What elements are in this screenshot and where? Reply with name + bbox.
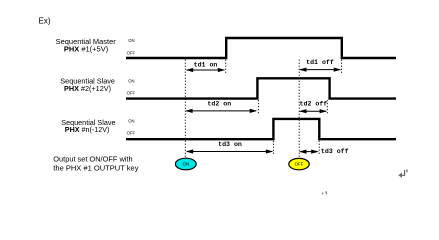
- dashed line row2 rise (x=257.6): [257, 100, 259, 115]
- dashed line row3 fall (x=319.2): [318, 141, 320, 156]
- ON/OFF ticks row3: [127, 119, 136, 136]
- ON/OFF ticks row2: [127, 78, 136, 95]
- waveform row1 master: [126, 38, 396, 58]
- svg-text:td3 off: td3 off: [321, 148, 349, 155]
- balloon ON (cyan): [175, 158, 196, 170]
- svg-text:ON: ON: [183, 162, 190, 167]
- balloon OFF (yellow): [289, 158, 309, 169]
- svg-text:Sequential Slave: Sequential Slave: [60, 79, 115, 86]
- svg-text:the PHX #1 OUTPUT key: the PHX #1 OUTPUT key: [53, 166, 139, 173]
- svg-text:OFF: OFF: [127, 50, 136, 55]
- waveform row2 slave2: [126, 78, 396, 98]
- ON/OFF ticks row1: [127, 38, 136, 55]
- svg-text:Sequential Slave: Sequential Slave: [61, 120, 115, 127]
- label row1: Sequential Master PHX #1(+5V): [56, 39, 117, 54]
- svg-text:td1 off: td1 off: [306, 59, 334, 66]
- dashed line row1 rise (x=225.7): [225, 60, 227, 73]
- svg-text:Sequential Master: Sequential Master: [56, 39, 117, 46]
- svg-text:td3 on: td3 on: [218, 141, 242, 148]
- svg-text:td2 off: td2 off: [300, 101, 328, 108]
- svg-text:OFF: OFF: [127, 90, 136, 95]
- dashed line row3 rise (x=273.6): [273, 141, 275, 156]
- svg-text:ON: ON: [128, 78, 134, 83]
- tiny gray page mark: [322, 191, 327, 194]
- svg-text:Ex): Ex): [39, 16, 51, 25]
- label row2: Sequential Slave PHX #2(+12V): [60, 79, 115, 93]
- dashed line OFF event (x=299.2): [298, 60, 300, 158]
- label row3: Sequential Slave PHX #n(-12V): [61, 120, 115, 134]
- dashed line ON event (x=185.3): [184, 60, 186, 158]
- arrow td1 off: [299, 68, 341, 72]
- return mark (gray): [398, 170, 407, 178]
- waveform row3 slaven: [126, 119, 396, 139]
- arrow td2 off: [299, 109, 327, 113]
- dashed line row1 fall (x=341.6): [341, 60, 343, 73]
- svg-text:Output set ON/OFF with: Output set ON/OFF with: [53, 156, 132, 163]
- arrow td2 on: [185, 109, 257, 113]
- svg-text:PHX #n(-12V): PHX #n(-12V): [65, 127, 110, 134]
- svg-text:td1 on: td1 on: [194, 61, 218, 68]
- svg-text:ON: ON: [128, 119, 134, 124]
- svg-text:td2 on: td2 on: [207, 101, 231, 108]
- arrow td3 on: [186, 149, 274, 153]
- arrow td3 off: [299, 150, 319, 154]
- svg-text:OFF: OFF: [295, 162, 304, 167]
- dashed line row2 fall (x=327.3): [326, 100, 328, 115]
- svg-text:OFF: OFF: [127, 131, 136, 136]
- caption: Output set ON/OFF with the PHX #1 OUTPUT key: [53, 156, 139, 172]
- svg-text:ON: ON: [128, 38, 134, 43]
- svg-text:PHX #1(+5V): PHX #1(+5V): [64, 47, 108, 54]
- svg-text:PHX #2(+12V): PHX #2(+12V): [64, 86, 111, 93]
- arrow td1 on: [186, 68, 226, 72]
